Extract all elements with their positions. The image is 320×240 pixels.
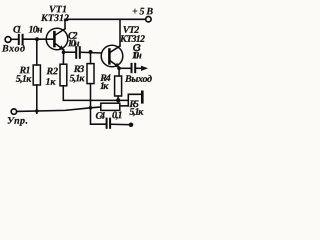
resistor R1: [33, 65, 40, 85]
svg-text:0,1: 0,1: [112, 110, 123, 121]
svg-text:Вход: Вход: [1, 43, 25, 54]
capacitor C2: [75, 47, 77, 58]
wire VT2 emitter to C3: [119, 67, 131, 69]
terminal Вход (input): [5, 37, 11, 43]
wire C4 right lead: [111, 123, 132, 125]
wire C1 to VT1 base: [24, 38, 54, 40]
svg-text:5,1к: 5,1к: [69, 73, 85, 84]
junction VT1 base / R1: [35, 37, 39, 41]
wire R3 top lead: [90, 52, 92, 64]
terminal Упр. (control): [11, 109, 16, 114]
wire VT1 emitter to C2: [64, 51, 76, 53]
wire R1 bottom lead to control line: [36, 85, 38, 113]
svg-text:5,1к: 5,1к: [129, 107, 144, 118]
svg-text:Выход: Выход: [124, 74, 152, 85]
svg-text:+5В: +5В: [132, 6, 153, 17]
junction VT1 emitter / C2: [62, 50, 66, 54]
svg-text:R2: R2: [45, 66, 58, 77]
wire R3 bottom lead down to C4: [91, 84, 106, 125]
wire VT1 collector to rail: [64, 19, 66, 29]
svg-text:5,1к: 5,1к: [16, 74, 32, 85]
wire C2 to VT2 base: [81, 51, 102, 54]
wire R4 bottom lead: [117, 96, 119, 100]
transistor VT1: [46, 28, 68, 50]
capacitor C3: [131, 64, 133, 72]
terminal +5В: [146, 17, 151, 22]
svg-text:1к: 1к: [100, 81, 109, 92]
output arrow Выход: [141, 66, 148, 71]
junction R4 / common line: [116, 98, 120, 102]
transistor VT2: [101, 45, 123, 67]
capacitor C1: [18, 35, 20, 44]
capacitor C4: [106, 119, 108, 128]
svg-text:С4: С4: [95, 111, 105, 122]
svg-text:10н: 10н: [29, 24, 43, 35]
resistor R5: [101, 103, 120, 110]
resistor R4: [115, 76, 122, 96]
node C4 lead end: [129, 123, 134, 128]
wire common line jog to connector: [128, 94, 141, 106]
resistor R3: [87, 64, 94, 84]
svg-text:1к: 1к: [45, 77, 56, 88]
wire input to C1: [11, 38, 18, 40]
connector bar common: [141, 92, 144, 103]
resistor R2: [60, 64, 67, 86]
wire R1 top lead: [36, 39, 38, 65]
wire R2 bottom lead and common line: [63, 86, 128, 101]
svg-text:10н: 10н: [132, 50, 142, 61]
junction R3 / control line: [89, 106, 93, 110]
wire VT2 collector to rail: [119, 19, 121, 46]
junction VT2 base / R3: [89, 50, 93, 54]
svg-text:С1: С1: [13, 24, 22, 35]
wire R5 right lead: [120, 105, 129, 107]
junction VT2 emitter / C3: [117, 67, 121, 71]
wire +5V supply rail: [65, 18, 146, 20]
wire control line to R5: [17, 107, 101, 111]
wire VT2 emitter down to R4: [118, 67, 120, 76]
svg-text:10н: 10н: [68, 38, 80, 49]
junction R1 / control line: [35, 109, 39, 113]
svg-text:Упр.: Упр.: [7, 116, 28, 127]
wire C3 to output arrow: [136, 67, 141, 69]
svg-text:КТ312: КТ312: [40, 13, 69, 24]
wire VT1 emitter down to R2: [62, 50, 64, 64]
